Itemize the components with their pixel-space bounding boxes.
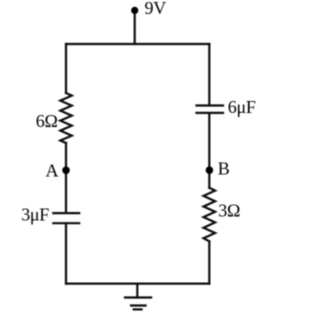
wire left branch top segment — [65, 44, 67, 93]
node B junction dot — [206, 166, 214, 174]
svg-text:3Ω: 3Ω — [218, 201, 240, 221]
capacitor C1 3uF top plate — [53, 212, 79, 214]
ground symbol stub — [136, 284, 138, 298]
wire resistor R2 to bottom rail — [208, 241, 210, 283]
ground bar middle — [131, 304, 145, 306]
svg-text:3μF: 3μF — [21, 205, 49, 225]
svg-text:6μF: 6μF — [228, 97, 256, 117]
svg-text:B: B — [218, 159, 230, 179]
resistor R2 3ohm — [204, 188, 216, 242]
node A junction dot — [62, 167, 70, 175]
capacitor C1 3uF bottom plate — [53, 222, 79, 224]
wire resistor R1 to capacitor C1 — [65, 143, 67, 213]
wire capacitor C1 to bottom rail — [65, 223, 67, 283]
capacitor C2 6uF top plate — [197, 104, 224, 106]
svg-text:6Ω: 6Ω — [36, 111, 58, 131]
ground bar short — [134, 308, 142, 310]
capacitor C2 6uF bottom plate — [197, 112, 224, 114]
wire 9V stub — [134, 10, 136, 44]
ground bar long — [125, 296, 151, 298]
wire right branch top segment — [208, 44, 210, 105]
wire capacitor C2 to resistor R2 — [208, 113, 210, 188]
wire top horizontal — [66, 43, 209, 45]
wire bottom horizontal — [66, 283, 209, 285]
node 9V supply dot — [131, 7, 138, 14]
svg-text:A: A — [46, 161, 59, 181]
resistor R1 6ohm — [60, 93, 72, 143]
svg-text:9V: 9V — [145, 0, 167, 18]
